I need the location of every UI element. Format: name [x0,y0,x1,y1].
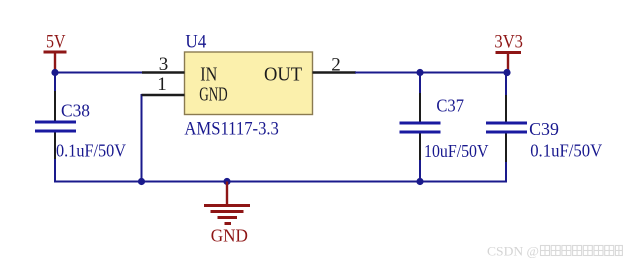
regulator U4 body [185,52,313,115]
svg-text:0.1uF/50V: 0.1uF/50V [530,141,602,161]
wire: pin1 vertical to rail [141,94,143,182]
pin 2 (OUT) [313,55,357,76]
junction ground rail / GND [223,178,230,185]
wire: C37 top lead [419,73,421,98]
svg-text:CSDN @: CSDN @ [487,244,539,259]
power port 3V3 [494,32,523,73]
watermark CSDN [487,244,539,259]
svg-text:C37: C37 [436,96,464,116]
wire: bottom ground rail [54,181,507,183]
svg-text:3: 3 [159,54,169,75]
svg-text:10uF/50V: 10uF/50V [424,141,489,161]
svg-text:2: 2 [331,55,341,76]
svg-text:5V: 5V [46,32,66,53]
wire: 5V junction to pin 3 [55,72,143,74]
wire: C37 bottom to rail [419,160,421,182]
wire: pin 2 to 3V3 node [355,72,507,74]
wire: C39 top lead [505,73,507,98]
watermark CJK glyph blocks [541,246,623,256]
junction pin1/rail [138,178,145,185]
junction 3V3 / C39 [503,69,510,76]
svg-text:GND: GND [199,84,228,106]
svg-text:AMS1117-3.3: AMS1117-3.3 [184,119,279,140]
junction C37 bottom [416,178,423,185]
ground GND symbol [204,182,250,246]
svg-text:C39: C39 [529,119,559,139]
svg-text:C38: C38 [61,101,90,121]
junction at 5V node [51,69,58,76]
svg-text:1: 1 [157,74,167,95]
svg-text:U4: U4 [185,32,206,53]
wire: 5V junction down to C38 [54,73,56,96]
pin 1 (GND) [142,74,185,95]
wire: C39 bottom to rail [505,162,507,183]
svg-text:0.1uF/50V: 0.1uF/50V [56,141,126,161]
power port 5V [44,32,67,73]
capacitor C37 [400,93,441,161]
svg-text:3V3: 3V3 [494,32,523,53]
pin 3 (IN) [142,54,185,75]
svg-text:GND: GND [211,226,248,246]
junction C37 top [416,69,423,76]
capacitor C38 [35,91,76,160]
capacitor C39 [486,95,527,163]
svg-text:IN: IN [200,64,217,86]
svg-text:OUT: OUT [264,64,302,86]
wire: C38 bottom to rail [54,159,56,183]
